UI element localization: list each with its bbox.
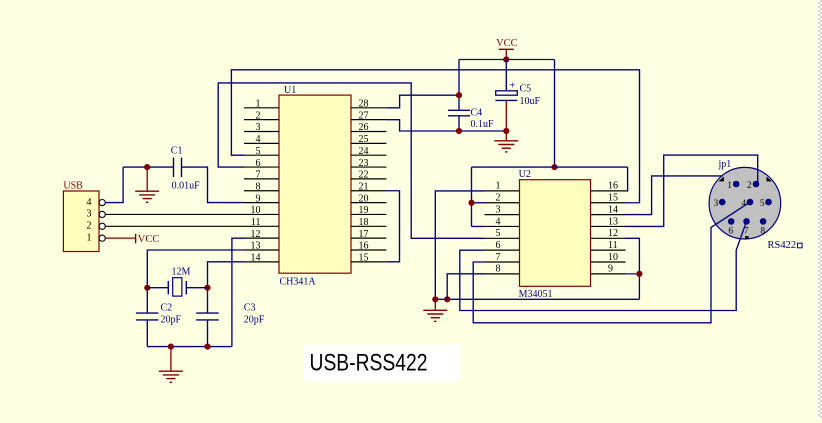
svg-text:23: 23: [359, 158, 369, 169]
jp1 pin 7: [743, 218, 750, 225]
op-amp U1 body CH341A: [279, 95, 351, 273]
U1 pin 20: [351, 202, 386, 204]
U1 pin 27: [351, 119, 386, 121]
wire USB pin3 to U1 pin 10: [105, 213, 244, 215]
svg-text:U2: U2: [519, 169, 531, 180]
svg-text:VCC: VCC: [496, 38, 518, 49]
USB pin 1: [99, 235, 105, 241]
U1 pin 23: [351, 166, 386, 168]
svg-text:USB: USB: [63, 181, 83, 192]
jp1 pin 3: [719, 199, 726, 206]
node junction at C1 rail / ground: [144, 164, 150, 170]
svg-text:1: 1: [496, 181, 501, 192]
U2 pin 8: [485, 273, 520, 275]
wire U2 pin1 to ground: [435, 191, 484, 299]
U1 pin 15: [351, 261, 386, 263]
svg-text:11: 11: [251, 217, 261, 228]
svg-text:1: 1: [727, 181, 732, 191]
svg-text:20pF: 20pF: [244, 315, 265, 326]
U2 pin 4: [485, 225, 520, 227]
svg-text:M34051: M34051: [519, 289, 553, 300]
USB pin 3: [99, 211, 105, 217]
ground below crystal rail: [170, 347, 172, 372]
svg-text:15: 15: [608, 193, 618, 204]
svg-text:5: 5: [256, 146, 261, 157]
svg-text:VCC: VCC: [138, 234, 160, 245]
jp1 pin 2: [753, 181, 760, 188]
wire U1 pin 14 to crystal right / C3: [208, 262, 245, 313]
node junction C4 top / pin28: [456, 92, 462, 98]
wire USB pin1 to VCC port: [105, 237, 135, 239]
wire U1 pin 13 to crystal left / C2: [147, 250, 244, 313]
node junction ground rail pin8: [444, 296, 450, 302]
svg-text:0.01uF: 0.01uF: [172, 180, 201, 191]
svg-text:C2: C2: [161, 303, 173, 314]
U2 pin 11: [591, 249, 626, 251]
IC U2 body M34051: [520, 180, 591, 287]
svg-text:13: 13: [251, 241, 261, 252]
svg-text:13: 13: [608, 216, 618, 227]
wire U2 pin14 to jp1 pin1: [626, 176, 723, 215]
svg-text:2: 2: [87, 221, 92, 232]
svg-text:19: 19: [359, 205, 369, 216]
U1 pin 25: [351, 142, 386, 144]
wire U2 pin6 to jp1 pin7: [460, 221, 747, 310]
crystal Y1 12M: [147, 287, 168, 289]
svg-text:12: 12: [608, 228, 618, 239]
wire net U1 pin6 to U2 pin5: [218, 83, 484, 238]
svg-text:16: 16: [359, 241, 369, 252]
svg-text:4: 4: [256, 134, 261, 145]
wire U2 pin8 to ground rail: [447, 274, 484, 299]
jp1 pin 1: [733, 181, 740, 188]
wire U1 pin21 to U1 pin15: [386, 191, 399, 262]
jp1 keying mark bottom: [745, 236, 748, 238]
svg-text:27: 27: [359, 110, 369, 121]
svg-text:3: 3: [87, 209, 92, 220]
wire C1 right to U1 pin 9: [182, 167, 245, 203]
svg-text:11: 11: [608, 240, 618, 251]
svg-text:6: 6: [728, 227, 733, 237]
node junction U2 pin2: [468, 200, 474, 206]
U1 pin 10: [244, 213, 279, 215]
wire ground rail under U2: [435, 298, 639, 300]
U1 pin 12: [244, 237, 279, 239]
wire U1 pin 12 to ground rail: [232, 238, 244, 346]
U2 pin 7: [485, 261, 520, 263]
U2 pin 1: [485, 190, 520, 192]
U2 pin 15: [591, 202, 626, 204]
U1 pin 21: [351, 190, 386, 192]
U1 pin 18: [351, 225, 386, 227]
U2 pin 2: [485, 202, 520, 204]
svg-text:C3: C3: [244, 303, 256, 314]
svg-text:12: 12: [251, 229, 261, 240]
capacitor C1: [173, 158, 175, 178]
svg-text:8: 8: [760, 227, 765, 237]
capacitor C3: [196, 312, 219, 314]
svg-text:C4: C4: [471, 108, 483, 119]
U2 pin 13: [591, 225, 626, 227]
svg-text:2: 2: [256, 110, 261, 121]
U2 pin 5: [485, 237, 520, 239]
node junction crystal right: [204, 285, 210, 291]
U1 pin 9: [244, 202, 279, 204]
svg-text:3: 3: [256, 122, 261, 133]
U2 pin 9: [591, 273, 626, 275]
title block USB-RSS422: [303, 345, 460, 382]
USB pin 2: [99, 223, 105, 229]
svg-text:5: 5: [496, 228, 501, 239]
node junction C5 bottom / ground: [503, 128, 509, 134]
svg-text:22: 22: [359, 170, 369, 181]
U1 pin 6: [244, 166, 279, 168]
jp1 pin 8: [760, 218, 767, 225]
jp1 pin 6: [728, 218, 735, 225]
wire net U1 pin5 to U2 pin15: [231, 70, 639, 203]
svg-text:2: 2: [747, 181, 752, 191]
wire VCC rail above U2: [472, 166, 628, 168]
svg-text:5: 5: [760, 199, 765, 209]
wire VCC rail to U2 pin16: [626, 167, 628, 191]
U2 pin 16: [591, 190, 626, 192]
svg-text:18: 18: [359, 217, 369, 228]
svg-text:26: 26: [359, 122, 369, 133]
svg-text:10uF: 10uF: [520, 96, 541, 107]
U2 pin 10: [591, 261, 626, 263]
svg-text:CH341A: CH341A: [280, 277, 317, 288]
wire VCC rail down to U2 rail: [554, 60, 556, 168]
power port VCC at USB pin1: [135, 234, 137, 244]
U1 pin 2: [244, 119, 279, 121]
U1 pin 28: [351, 107, 386, 109]
U2 pin 3: [485, 214, 520, 216]
svg-text:7: 7: [256, 170, 261, 181]
U1 pin 24: [351, 154, 386, 156]
svg-text:jp1: jp1: [718, 159, 732, 170]
U1 pin 17: [351, 237, 386, 239]
ground under U2: [434, 299, 436, 310]
svg-text:10: 10: [251, 205, 261, 216]
U1 pin 3: [244, 131, 279, 133]
connector jp1 circular DIN body: [709, 167, 781, 239]
svg-text:U1: U1: [284, 85, 296, 96]
svg-text:20: 20: [359, 193, 369, 204]
U2 pin 14: [591, 214, 626, 216]
U1 pin 22: [351, 178, 386, 180]
svg-text:4: 4: [87, 197, 92, 208]
svg-text:C1: C1: [171, 146, 183, 157]
svg-text:24: 24: [359, 146, 369, 157]
svg-text:3: 3: [496, 204, 501, 215]
node junction ground rail left: [432, 296, 438, 302]
U1 pin 14: [244, 261, 279, 263]
node junction ground rail at ground: [168, 344, 174, 350]
wire USB pin2 to U1 pin 11: [105, 225, 244, 227]
wire U2 pin7 to jp1 pin4: [473, 202, 750, 323]
connector USB body: [63, 191, 99, 252]
svg-text:9: 9: [256, 193, 261, 204]
U1 pin 1: [244, 107, 279, 109]
svg-text:14: 14: [608, 204, 618, 215]
svg-text:14: 14: [251, 253, 261, 264]
U1 pin 7: [244, 178, 279, 180]
U1 pin 26: [351, 131, 386, 133]
svg-text:USB-RSS422: USB-RSS422: [310, 350, 428, 377]
svg-text:21: 21: [359, 181, 369, 192]
wire USB pin4 to C1 rail: [105, 167, 123, 203]
svg-text:C5: C5: [520, 84, 532, 95]
U1 pin 4: [244, 142, 279, 144]
svg-text:+: +: [509, 79, 515, 91]
U1 pin 19: [351, 213, 386, 215]
U1 pin 13: [244, 249, 279, 251]
svg-text:16: 16: [608, 181, 618, 192]
jp1 pin 5: [765, 199, 772, 206]
capacitor C5 polarized: [505, 60, 507, 91]
wire U1 pin28 to C4 top: [386, 95, 459, 108]
node junction VCC rail / C5: [503, 56, 509, 62]
wire U2 pin12 pin9 to ground rail: [626, 238, 640, 299]
wire U2 pin13 to jp1 pin2: [626, 155, 758, 226]
U2 pin 12: [591, 237, 626, 239]
capacitor C4: [458, 60, 460, 111]
U1 pin 16: [351, 249, 386, 251]
ground at USB / C1: [146, 167, 148, 191]
wire VCC top rail: [459, 59, 555, 61]
svg-text:8: 8: [256, 181, 261, 192]
node junction crystal left: [144, 285, 150, 291]
svg-text:25: 25: [359, 134, 369, 145]
svg-text:6: 6: [496, 240, 501, 251]
svg-text:2: 2: [496, 193, 501, 204]
capacitor C2: [136, 312, 159, 314]
jp1 keying mark top-left: [718, 177, 724, 182]
svg-text:28: 28: [359, 99, 369, 110]
wire crystal ground rail: [147, 346, 232, 348]
U1 pin 8: [244, 190, 279, 192]
svg-text:0.1uF: 0.1uF: [471, 119, 495, 130]
scrollbar dither strip right edge: [818, 0, 822, 418]
ground below C5: [505, 131, 507, 141]
node junction VCC / U2 rail: [551, 164, 557, 170]
svg-text:12M: 12M: [172, 267, 191, 278]
node junction ground rail at C3: [204, 344, 210, 350]
jp1 pin 4: [747, 199, 754, 206]
svg-text:6: 6: [256, 158, 261, 169]
svg-text:20pF: 20pF: [161, 315, 182, 326]
wire U1 pin27 to C4 bottom ground rail: [386, 120, 506, 131]
svg-text:9: 9: [608, 264, 613, 275]
svg-text:7: 7: [496, 252, 501, 263]
svg-text:RS422: RS422: [768, 240, 797, 251]
U1 pin 5: [244, 154, 279, 156]
jp1 keying mark top-right: [767, 177, 773, 182]
node junction U2 pin9: [636, 271, 642, 277]
svg-text:1: 1: [256, 99, 261, 110]
svg-text:8: 8: [496, 264, 501, 275]
wire C1 rail left: [123, 166, 173, 168]
svg-text:4: 4: [496, 216, 501, 227]
wire VCC rail to U2 pin2 pin4: [471, 167, 473, 226]
svg-text:1: 1: [87, 232, 92, 243]
svg-text:17: 17: [359, 229, 369, 240]
U1 pin 11: [244, 225, 279, 227]
svg-text:15: 15: [359, 253, 369, 264]
U2 pin 6: [485, 249, 520, 251]
USB pin 4: [99, 200, 105, 206]
svg-text:3: 3: [714, 199, 719, 209]
svg-text:10: 10: [608, 252, 618, 263]
node junction C4 bottom: [456, 128, 462, 134]
